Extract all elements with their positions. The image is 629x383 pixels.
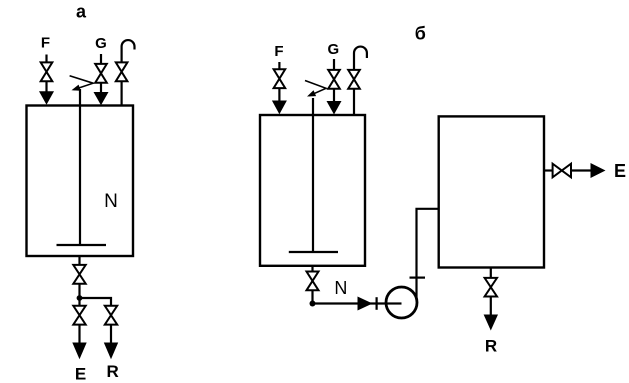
wire junction to right branch (left) xyxy=(80,298,112,307)
wire G valve to arrow (left) xyxy=(100,83,102,96)
pump P1 xyxy=(386,287,417,318)
wire pump discharge riser and elbow xyxy=(417,209,440,300)
arrow G into tank (right) xyxy=(327,101,342,115)
wire valve to arrow R (right) xyxy=(490,297,492,318)
valve vent (left) xyxy=(116,62,128,81)
arrow stream R (left) xyxy=(104,343,118,360)
wire R branch to arrow (left) xyxy=(110,325,112,346)
valve vent (right) xyxy=(348,70,360,89)
wire E branch to arrow (left) xyxy=(78,325,80,346)
vent hook pipe (right) xyxy=(354,47,367,70)
arrow stream E (left) xyxy=(72,343,86,360)
wire G inlet stem (right) xyxy=(333,59,335,71)
svg-text:F: F xyxy=(41,35,50,52)
svg-text:R: R xyxy=(485,337,497,356)
wire F inlet stem (right) xyxy=(278,62,280,70)
wire pump inlet inside xyxy=(387,302,402,304)
agitator shaft (right) xyxy=(312,98,314,252)
stirrer drive arrow (right) xyxy=(305,81,326,97)
arrow stream N to pump xyxy=(358,297,373,311)
svg-text:б: б xyxy=(415,24,426,44)
valve R outlet (right) xyxy=(485,278,497,297)
tank 1 (left reactor) xyxy=(27,106,134,257)
valve G (right) xyxy=(328,70,340,89)
agitator impeller (right) xyxy=(289,251,338,253)
svg-text:R: R xyxy=(106,362,118,381)
arrow stream E (right) xyxy=(591,163,606,178)
flange tick pump discharge xyxy=(410,277,426,279)
agitator impeller (left) xyxy=(57,244,107,246)
wire tank 3 bottom outlet xyxy=(490,268,492,279)
valve R branch (left) xyxy=(105,306,117,325)
agitator shaft (left) xyxy=(79,89,81,245)
svg-text:F: F xyxy=(274,43,283,60)
tank 3 (receiver) xyxy=(439,116,544,267)
wire junction down left branch xyxy=(78,298,80,307)
wire G valve to arrow (right) xyxy=(333,89,335,104)
svg-text:E: E xyxy=(614,161,626,181)
wire G inlet stem (left) xyxy=(100,54,102,65)
svg-text:G: G xyxy=(327,41,339,58)
svg-text:N: N xyxy=(334,278,347,298)
valve tank 1 outlet (left) xyxy=(73,265,85,284)
junction node (right) xyxy=(310,301,316,307)
svg-text:G: G xyxy=(95,35,107,52)
wire vent valve to tank top (left) xyxy=(120,81,122,106)
wire valve to junction (left) xyxy=(78,284,80,298)
svg-text:а: а xyxy=(76,1,87,21)
tank 2 (right reactor) xyxy=(260,115,365,266)
wire vent valve to tank top (right) xyxy=(353,89,355,116)
valve F (left) xyxy=(41,62,53,81)
valve G (left) xyxy=(95,64,107,83)
wire valve to arrow E (right) xyxy=(571,169,592,171)
svg-text:N: N xyxy=(104,191,118,212)
svg-text:E: E xyxy=(75,364,86,383)
valve F (right) xyxy=(274,69,286,88)
wire tank 2 outlet xyxy=(311,266,313,272)
wire valve to junction (right) xyxy=(311,290,313,303)
arrow G into tank (left) xyxy=(94,92,109,105)
arrow F into tank (left) xyxy=(39,91,54,105)
wire junction to pump xyxy=(313,302,402,304)
valve E outlet xyxy=(553,164,571,178)
arrow stream R (right) xyxy=(484,315,498,331)
flange tick pump inlet xyxy=(376,297,378,310)
valve E branch (left) xyxy=(73,306,85,325)
wire tank 1 outlet (left) xyxy=(78,256,80,266)
stirrer drive arrow (left) xyxy=(70,76,94,91)
wire tank 3 side outlet xyxy=(544,169,553,171)
valve tank 2 outlet xyxy=(307,272,319,291)
vent hook pipe (left) xyxy=(122,40,135,63)
wire F inlet stem (left) xyxy=(45,55,47,64)
arrow F into tank (right) xyxy=(272,101,287,115)
wire F valve to arrow (left) xyxy=(45,81,47,95)
junction node (left) xyxy=(77,295,83,301)
wire F valve to arrow (right) xyxy=(278,88,280,103)
